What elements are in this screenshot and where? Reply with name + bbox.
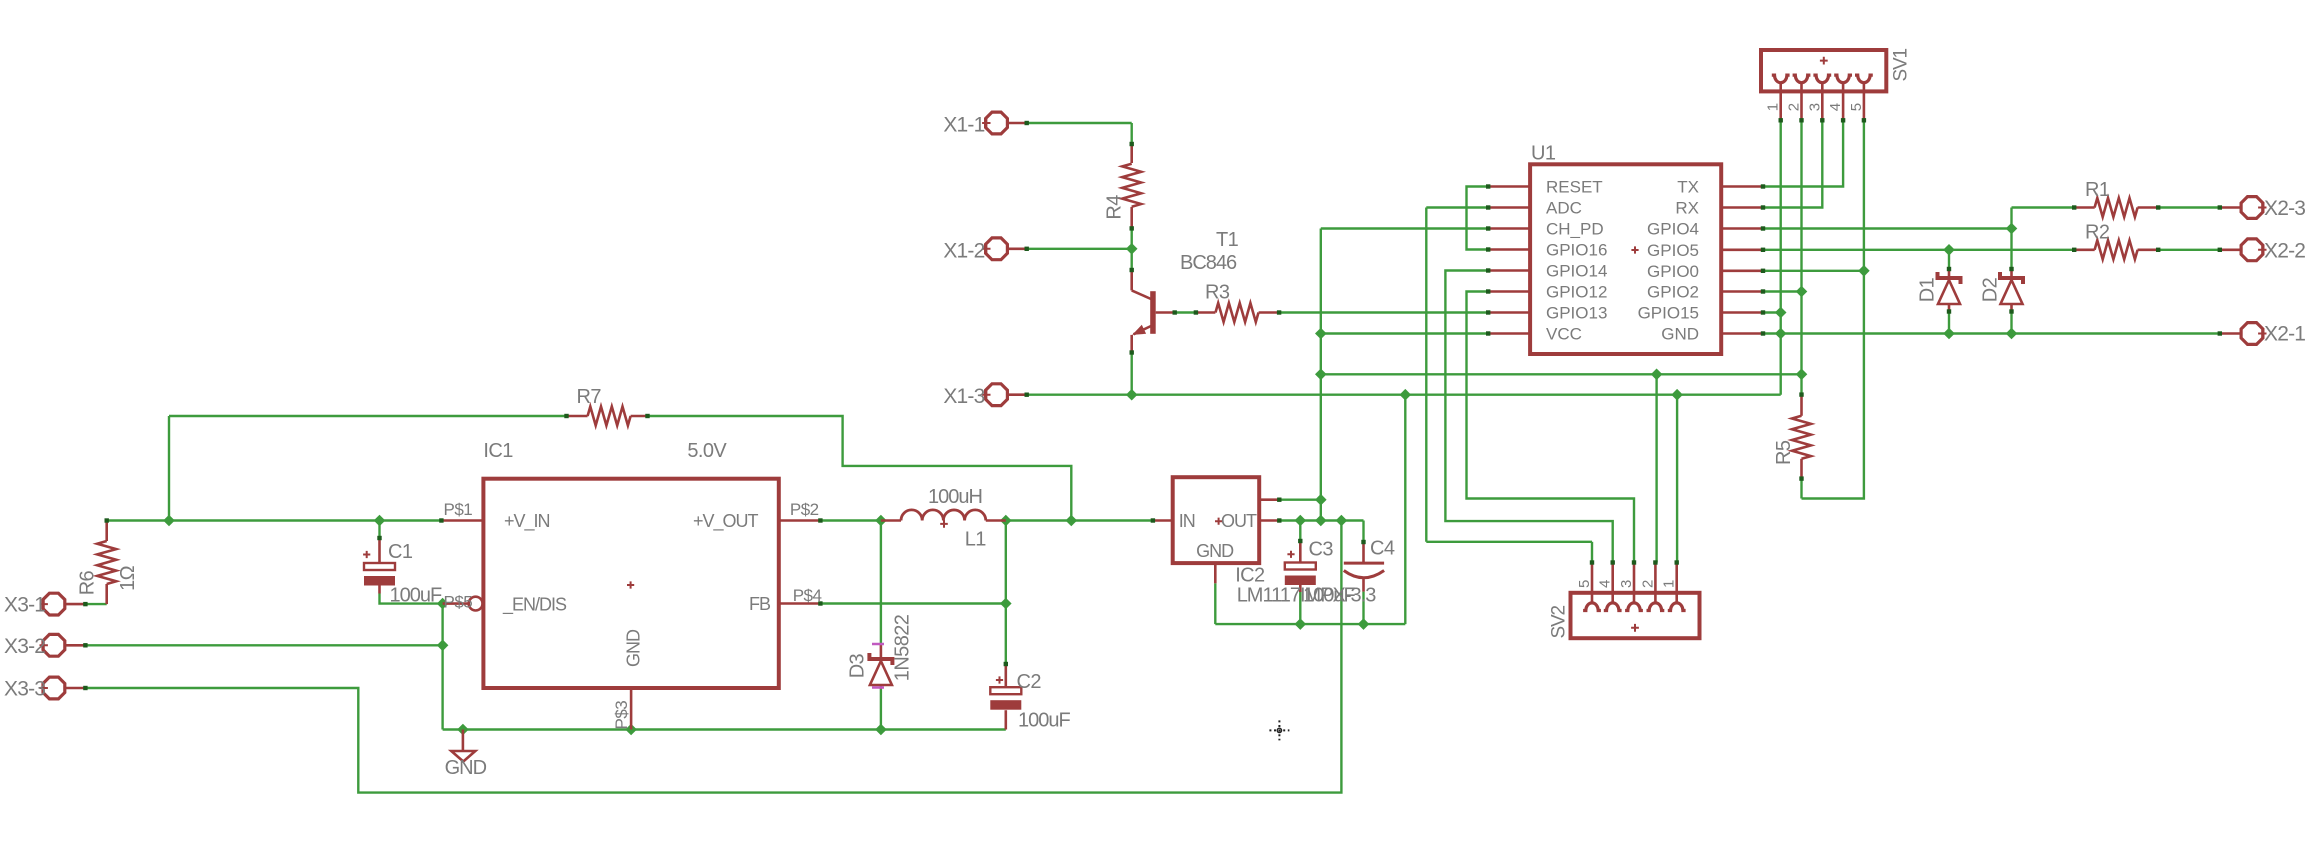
pad X1-3	[986, 384, 1008, 406]
svg-text:R7: R7	[577, 386, 602, 408]
svg-text:4: 4	[1597, 580, 1614, 588]
pad X3-1	[43, 593, 65, 615]
svg-text:C4: C4	[1370, 538, 1395, 560]
connector SV1 body	[1761, 50, 1886, 91]
svg-text:X1-1: X1-1	[943, 114, 984, 137]
net +V_IN wire row	[107, 519, 442, 521]
svg-text:P$2: P$2	[790, 500, 819, 519]
pin SV2 3	[1625, 603, 1643, 611]
wire X3-1 to R6	[85, 603, 106, 605]
pin U1 CH_PD	[1488, 227, 1530, 230]
wire CH_PD vertical	[1320, 229, 1322, 521]
svg-text:C2: C2	[1017, 671, 1042, 693]
svg-text:CH_PD: CH_PD	[1546, 220, 1604, 239]
pin U1 GPIO5	[1721, 249, 1763, 252]
svg-text:SV2: SV2	[1549, 606, 1570, 639]
net GND wire X1-3 row	[1027, 394, 1781, 396]
wire GND cap-rail vertical	[1404, 395, 1406, 624]
pin U1 ADC	[1488, 206, 1530, 209]
wire R1 row left	[2012, 206, 2075, 208]
pin IC2 IN	[1153, 519, 1173, 522]
pin SV2 2	[1647, 603, 1665, 611]
svg-text:GPIO2: GPIO2	[1647, 283, 1699, 302]
svg-text:+V_IN: +V_IN	[504, 511, 550, 532]
wire SV1 pin5 vertical	[1863, 120, 1865, 270]
svg-text:ADC: ADC	[1546, 199, 1582, 218]
wire X3-2 row	[85, 644, 442, 646]
svg-text:VCC: VCC	[1546, 325, 1582, 344]
pin IC1 P$5 _EN/DIS	[443, 602, 469, 605]
svg-text:U1: U1	[1531, 143, 1556, 165]
svg-text:R1: R1	[2085, 179, 2110, 201]
svg-text:100uF: 100uF	[1303, 585, 1355, 607]
wire T1 emitter to GND row	[1130, 353, 1132, 395]
wire GPIO14 to SV2 pin4	[1445, 271, 1612, 563]
pin U1 GPIO16	[1488, 248, 1530, 251]
pin SV2 1	[1668, 603, 1686, 611]
wire SV2 pin2 vertical	[1655, 374, 1657, 562]
svg-text:1N5822: 1N5822	[892, 614, 914, 681]
wire R5 bottom	[1800, 479, 1802, 499]
diode D3 1N5822	[880, 645, 883, 657]
svg-text:R6: R6	[77, 570, 99, 595]
svg-text:5: 5	[1848, 103, 1865, 111]
wire C3 bottom	[1299, 592, 1301, 624]
pin U1 GPIO0	[1721, 269, 1763, 272]
wire VCC row	[1321, 332, 1488, 334]
wire GPIO0 to SV1 pin5	[1763, 270, 1864, 272]
wire CH_PD row	[1321, 227, 1488, 229]
pin IC1 P$2 +V_OUT	[779, 519, 821, 522]
svg-text:1Ω: 1Ω	[117, 565, 139, 591]
resistor R7	[567, 415, 588, 418]
wire GND rail under IC1	[443, 728, 1006, 730]
svg-text:X1-2: X1-2	[943, 239, 984, 262]
wire D3 top	[880, 521, 882, 646]
wire R3 to U1 GPIO13	[1279, 311, 1488, 313]
wire C4 bottom	[1362, 592, 1364, 625]
wire GPIO15 to GND net	[1763, 311, 1781, 313]
wire FB row	[820, 602, 1005, 604]
svg-text:X2-3: X2-3	[2264, 197, 2305, 220]
pin U1 VCC	[1488, 332, 1530, 335]
svg-text:1: 1	[1661, 580, 1678, 588]
svg-text:P$1: P$1	[444, 500, 473, 519]
svg-text:FB: FB	[749, 594, 771, 614]
svg-text:4: 4	[1827, 103, 1844, 111]
pin U1 GPIO14	[1488, 269, 1530, 272]
svg-text:RX: RX	[1675, 199, 1699, 218]
wire R2 to X2-2	[2158, 249, 2220, 251]
svg-text:IN: IN	[1179, 511, 1195, 531]
svg-text:C3: C3	[1309, 539, 1334, 561]
svg-text:SV1: SV1	[1890, 49, 1911, 82]
wire R7 row	[169, 415, 567, 417]
svg-text:100uF: 100uF	[1018, 710, 1070, 732]
wire C1 top	[378, 521, 380, 539]
svg-text:3: 3	[1618, 580, 1635, 588]
pin IC1 P$4 FB	[779, 602, 821, 605]
pin IC2 OUT2 top	[1259, 498, 1279, 501]
svg-text:GND: GND	[1661, 325, 1699, 344]
wire cap rail	[1215, 623, 1405, 625]
net +3V3 wire OUT row	[1279, 519, 1363, 521]
pad X1-2	[986, 238, 1008, 260]
svg-text:IC2: IC2	[1235, 565, 1265, 587]
resistor R2	[2074, 249, 2095, 252]
svg-text:D3: D3	[846, 653, 868, 678]
svg-text:OUT: OUT	[1221, 511, 1257, 531]
svg-text:GPIO12: GPIO12	[1546, 283, 1607, 302]
svg-text:BC846: BC846	[1180, 252, 1237, 274]
node X1-2/T1 junction	[1126, 243, 1138, 255]
svg-text:P$3: P$3	[612, 701, 631, 730]
wire T1 collector	[1130, 249, 1132, 270]
pin SV1 4	[1834, 75, 1852, 83]
wire C3 top	[1299, 521, 1301, 542]
svg-text:RESET: RESET	[1546, 178, 1603, 197]
svg-text:R2: R2	[2085, 222, 2110, 244]
resistor R3	[1196, 311, 1216, 314]
svg-text:R3: R3	[1205, 281, 1230, 303]
wire SV2 pin1 vertical	[1676, 395, 1678, 563]
wire GPIO12 to SV2 pin3	[1467, 292, 1635, 563]
pin SV2 5	[1583, 603, 1601, 611]
wire D2 top	[2010, 229, 2012, 270]
inductor L1	[881, 519, 901, 522]
pin U1 GND	[1721, 332, 1763, 335]
svg-text:GPIO15: GPIO15	[1638, 304, 1699, 323]
svg-text:2: 2	[1639, 580, 1656, 588]
svg-text:TX: TX	[1677, 178, 1699, 197]
svg-text:GPIO0: GPIO0	[1647, 262, 1699, 281]
wire T1 base to R3	[1175, 311, 1196, 313]
svg-text:_EN/DIS: _EN/DIS	[502, 595, 567, 616]
svg-text:GND: GND	[445, 757, 487, 779]
pin U1 RESET	[1488, 185, 1530, 188]
wire GPIO4 row to D2/R1	[1763, 227, 2012, 229]
svg-text:X3-3: X3-3	[4, 678, 45, 701]
wire ADC to SV2 pin5	[1426, 206, 1488, 208]
wire SV1 pin2 vertical	[1800, 120, 1802, 374]
svg-text:GND: GND	[624, 629, 644, 667]
wire RESET to GPIO16	[1467, 187, 1489, 250]
net +5V wire V_OUT row	[820, 519, 881, 521]
wire X1-2 to node	[1027, 248, 1132, 250]
svg-text:X3-2: X3-2	[4, 635, 45, 658]
pad X2-3	[2241, 197, 2263, 219]
capacitor C3	[1299, 541, 1302, 563]
ground symbol GND	[462, 730, 465, 752]
svg-text:R5: R5	[1773, 440, 1795, 465]
resistor R5	[1800, 395, 1803, 416]
svg-text:T1: T1	[1216, 229, 1239, 251]
pin U1 RX	[1721, 206, 1763, 209]
svg-text:X2-2: X2-2	[2264, 239, 2305, 262]
wire GND row to X2-1	[1763, 332, 2220, 334]
svg-text:3: 3	[1806, 103, 1823, 111]
transistor T1	[1130, 270, 1133, 290]
wire R1 tap vertical	[2010, 208, 2012, 229]
svg-text:X3-1: X3-1	[4, 594, 45, 617]
svg-text:2: 2	[1786, 103, 1803, 111]
svg-text:GPIO14: GPIO14	[1546, 262, 1607, 281]
wire D1 cathode? bottom	[1948, 312, 1950, 334]
connector SV2 body	[1571, 593, 1700, 638]
pin IC1 P$1 +V_IN	[441, 519, 483, 522]
svg-text:100uH: 100uH	[928, 486, 982, 508]
svg-text:P$5: P$5	[444, 593, 473, 612]
wire 3V3 to X3-3 route	[85, 521, 1341, 793]
ic IC1 body	[483, 479, 778, 688]
svg-text:D2: D2	[1980, 277, 2002, 302]
diode D2	[2010, 269, 2013, 276]
wire R4 to X1-2 node	[1130, 228, 1132, 248]
pin SV1 5	[1855, 75, 1873, 83]
wire C1 bottom to EN/DIS	[380, 594, 443, 604]
svg-text:GND: GND	[1196, 541, 1234, 561]
pad X3-3	[43, 677, 65, 699]
pin U1 GPIO12	[1488, 290, 1530, 293]
wire R7 right route to IC2 IN	[648, 416, 1072, 521]
svg-text:C1: C1	[388, 541, 413, 563]
svg-text:GPIO5: GPIO5	[1647, 241, 1699, 260]
pad X2-2	[2241, 239, 2263, 261]
pin SV1 1	[1772, 75, 1790, 83]
resistor R6	[105, 521, 108, 542]
wire to IC2 IN	[1071, 519, 1153, 521]
wire R5 top	[1800, 374, 1802, 394]
wire C2 top / FB vertical	[1005, 521, 1007, 665]
svg-text:GPIO13: GPIO13	[1546, 304, 1607, 323]
pin IC2 OUT	[1259, 519, 1279, 522]
svg-text:+V_OUT: +V_OUT	[693, 511, 759, 532]
capacitor C1	[378, 538, 381, 563]
pin U1 GPIO2	[1721, 290, 1763, 293]
diode D1	[1948, 269, 1951, 276]
pin SV1 3	[1813, 75, 1831, 83]
svg-text:X2-1: X2-1	[2264, 323, 2305, 346]
resistor R1	[2074, 206, 2095, 209]
svg-text:5.0V: 5.0V	[687, 440, 727, 462]
pin SV1 2	[1793, 75, 1811, 83]
svg-text:1: 1	[1765, 103, 1782, 111]
resistor R4	[1130, 144, 1133, 163]
wire D3 bottom	[880, 689, 882, 730]
svg-text:R4: R4	[1104, 195, 1126, 220]
wire SV1 pin1 vertical	[1779, 120, 1781, 394]
pin U1 TX	[1721, 185, 1763, 188]
pad X2-1	[2241, 323, 2263, 345]
svg-text:P$4: P$4	[793, 586, 822, 605]
wire C4 top	[1362, 521, 1364, 543]
wire GPIO5 row to R2	[1763, 249, 2074, 251]
wire TX to SV1 pin4	[1763, 120, 1843, 186]
pad X1-1	[986, 112, 1008, 134]
svg-text:IC1: IC1	[483, 440, 513, 462]
svg-text:D1: D1	[1916, 277, 1938, 302]
wire X1-1 to R4	[1027, 122, 1132, 124]
pin IC2 GND	[1214, 563, 1217, 583]
ic U1 body ESP8266	[1530, 164, 1721, 354]
wire IC2 GND drop	[1214, 583, 1216, 624]
ic IC2 body LM1117	[1173, 477, 1260, 563]
capacitor C2	[1004, 664, 1007, 687]
wire GPIO2 link	[1763, 290, 1802, 292]
svg-text:100uF: 100uF	[390, 585, 442, 607]
pin U1 GPIO4	[1721, 227, 1763, 230]
svg-text:GPIO16: GPIO16	[1546, 241, 1607, 260]
wire R7 drop left	[168, 416, 170, 521]
pin SV2 4	[1604, 603, 1622, 611]
wire D1 top	[1948, 250, 1950, 269]
wire IC2 top pin	[1279, 499, 1321, 501]
pin U1 GPIO13	[1488, 311, 1530, 314]
wire SV1 pin5 to R5 bottom	[1802, 271, 1864, 499]
svg-text:L1: L1	[965, 529, 987, 551]
wire EN/DIS to GND rail vertical	[441, 604, 443, 730]
wire D2 bottom	[2010, 312, 2012, 334]
wire L1 to C2 node	[1006, 519, 1072, 521]
capacitor C4	[1362, 542, 1365, 563]
svg-text:5: 5	[1576, 580, 1593, 588]
wire R1 to X2-3	[2158, 206, 2220, 208]
wire 3V3 distribution row y374	[1321, 373, 1802, 375]
svg-text:X1-3: X1-3	[943, 385, 984, 408]
pin U1 GPIO15	[1721, 311, 1763, 314]
sheet origin crosshair	[1269, 720, 1289, 740]
pad X3-2	[43, 634, 65, 656]
pin IC1 P$3 GND	[630, 688, 633, 730]
svg-text:GPIO4: GPIO4	[1647, 220, 1699, 239]
wire RX to SV1 pin3	[1763, 120, 1822, 207]
